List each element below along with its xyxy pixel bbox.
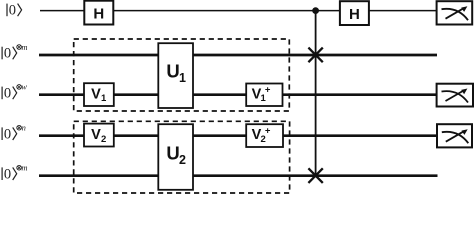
- svg-text:+: +: [265, 85, 271, 96]
- svg-text:0: 0: [4, 46, 11, 62]
- ket |0> label for q0: [7, 3, 22, 19]
- svg-text:V: V: [91, 86, 101, 102]
- gate U2 (spans n and m2): [158, 124, 193, 190]
- wire register n (fourth line, thick): [39, 134, 437, 137]
- svg-text:m: m: [21, 163, 27, 173]
- wire q0 (top qubit line): [40, 10, 437, 12]
- svg-text:U: U: [166, 143, 179, 164]
- svg-text:0: 0: [4, 86, 11, 102]
- svg-text:U: U: [166, 61, 179, 82]
- dashed box 1 (around V1,U1,V1+): [74, 39, 290, 111]
- ket |0>^(tensor w) label for register w: [2, 82, 27, 102]
- gate H second (on q0): [340, 1, 369, 25]
- measurement M4 (on n): [437, 124, 472, 147]
- svg-text:0: 0: [9, 3, 16, 19]
- gate U1 (spans m1 and w): [158, 43, 193, 108]
- svg-text:0: 0: [4, 166, 11, 182]
- svg-text:+: +: [265, 125, 271, 136]
- gate H first (on q0): [84, 1, 113, 25]
- svg-text:n: n: [22, 123, 26, 133]
- wire register m1 (second line, thick): [39, 54, 437, 57]
- gate V2 (on n): [84, 124, 114, 147]
- measurement M1 (on q0): [437, 1, 473, 24]
- ket |0>^(tensor n) label for register n: [2, 123, 26, 143]
- svg-text:1: 1: [101, 93, 107, 104]
- svg-text:2: 2: [101, 134, 106, 145]
- wire register w (third line, thick): [39, 93, 437, 96]
- svg-text:w: w: [21, 82, 27, 92]
- svg-text:H: H: [93, 6, 104, 23]
- swap cross on register m1: [308, 48, 322, 63]
- gate V2+ (V2 dagger, on n): [246, 124, 283, 147]
- svg-text:0: 0: [4, 126, 11, 142]
- vertical control line (from control dot to swap on m2): [315, 11, 317, 176]
- gate V1+ (V1 dagger, on w): [246, 84, 282, 107]
- wire register m2 (fifth line, thick): [39, 174, 438, 177]
- ket |0>^(tensor m) label for register m1: [2, 42, 27, 62]
- control dot node on q0: [312, 7, 319, 14]
- svg-text:V: V: [91, 127, 101, 143]
- svg-text:1: 1: [179, 71, 186, 85]
- svg-text:2: 2: [179, 153, 186, 167]
- dashed box 2 (around V2,U2,V2+): [74, 121, 290, 193]
- measurement M3 (on w): [437, 84, 473, 107]
- ket |0>^(tensor m) label for register m2: [2, 163, 27, 183]
- gate V1 (on w): [84, 83, 114, 106]
- swap cross on register m2: [308, 168, 322, 183]
- svg-text:m: m: [21, 42, 27, 52]
- svg-text:H: H: [349, 6, 360, 23]
